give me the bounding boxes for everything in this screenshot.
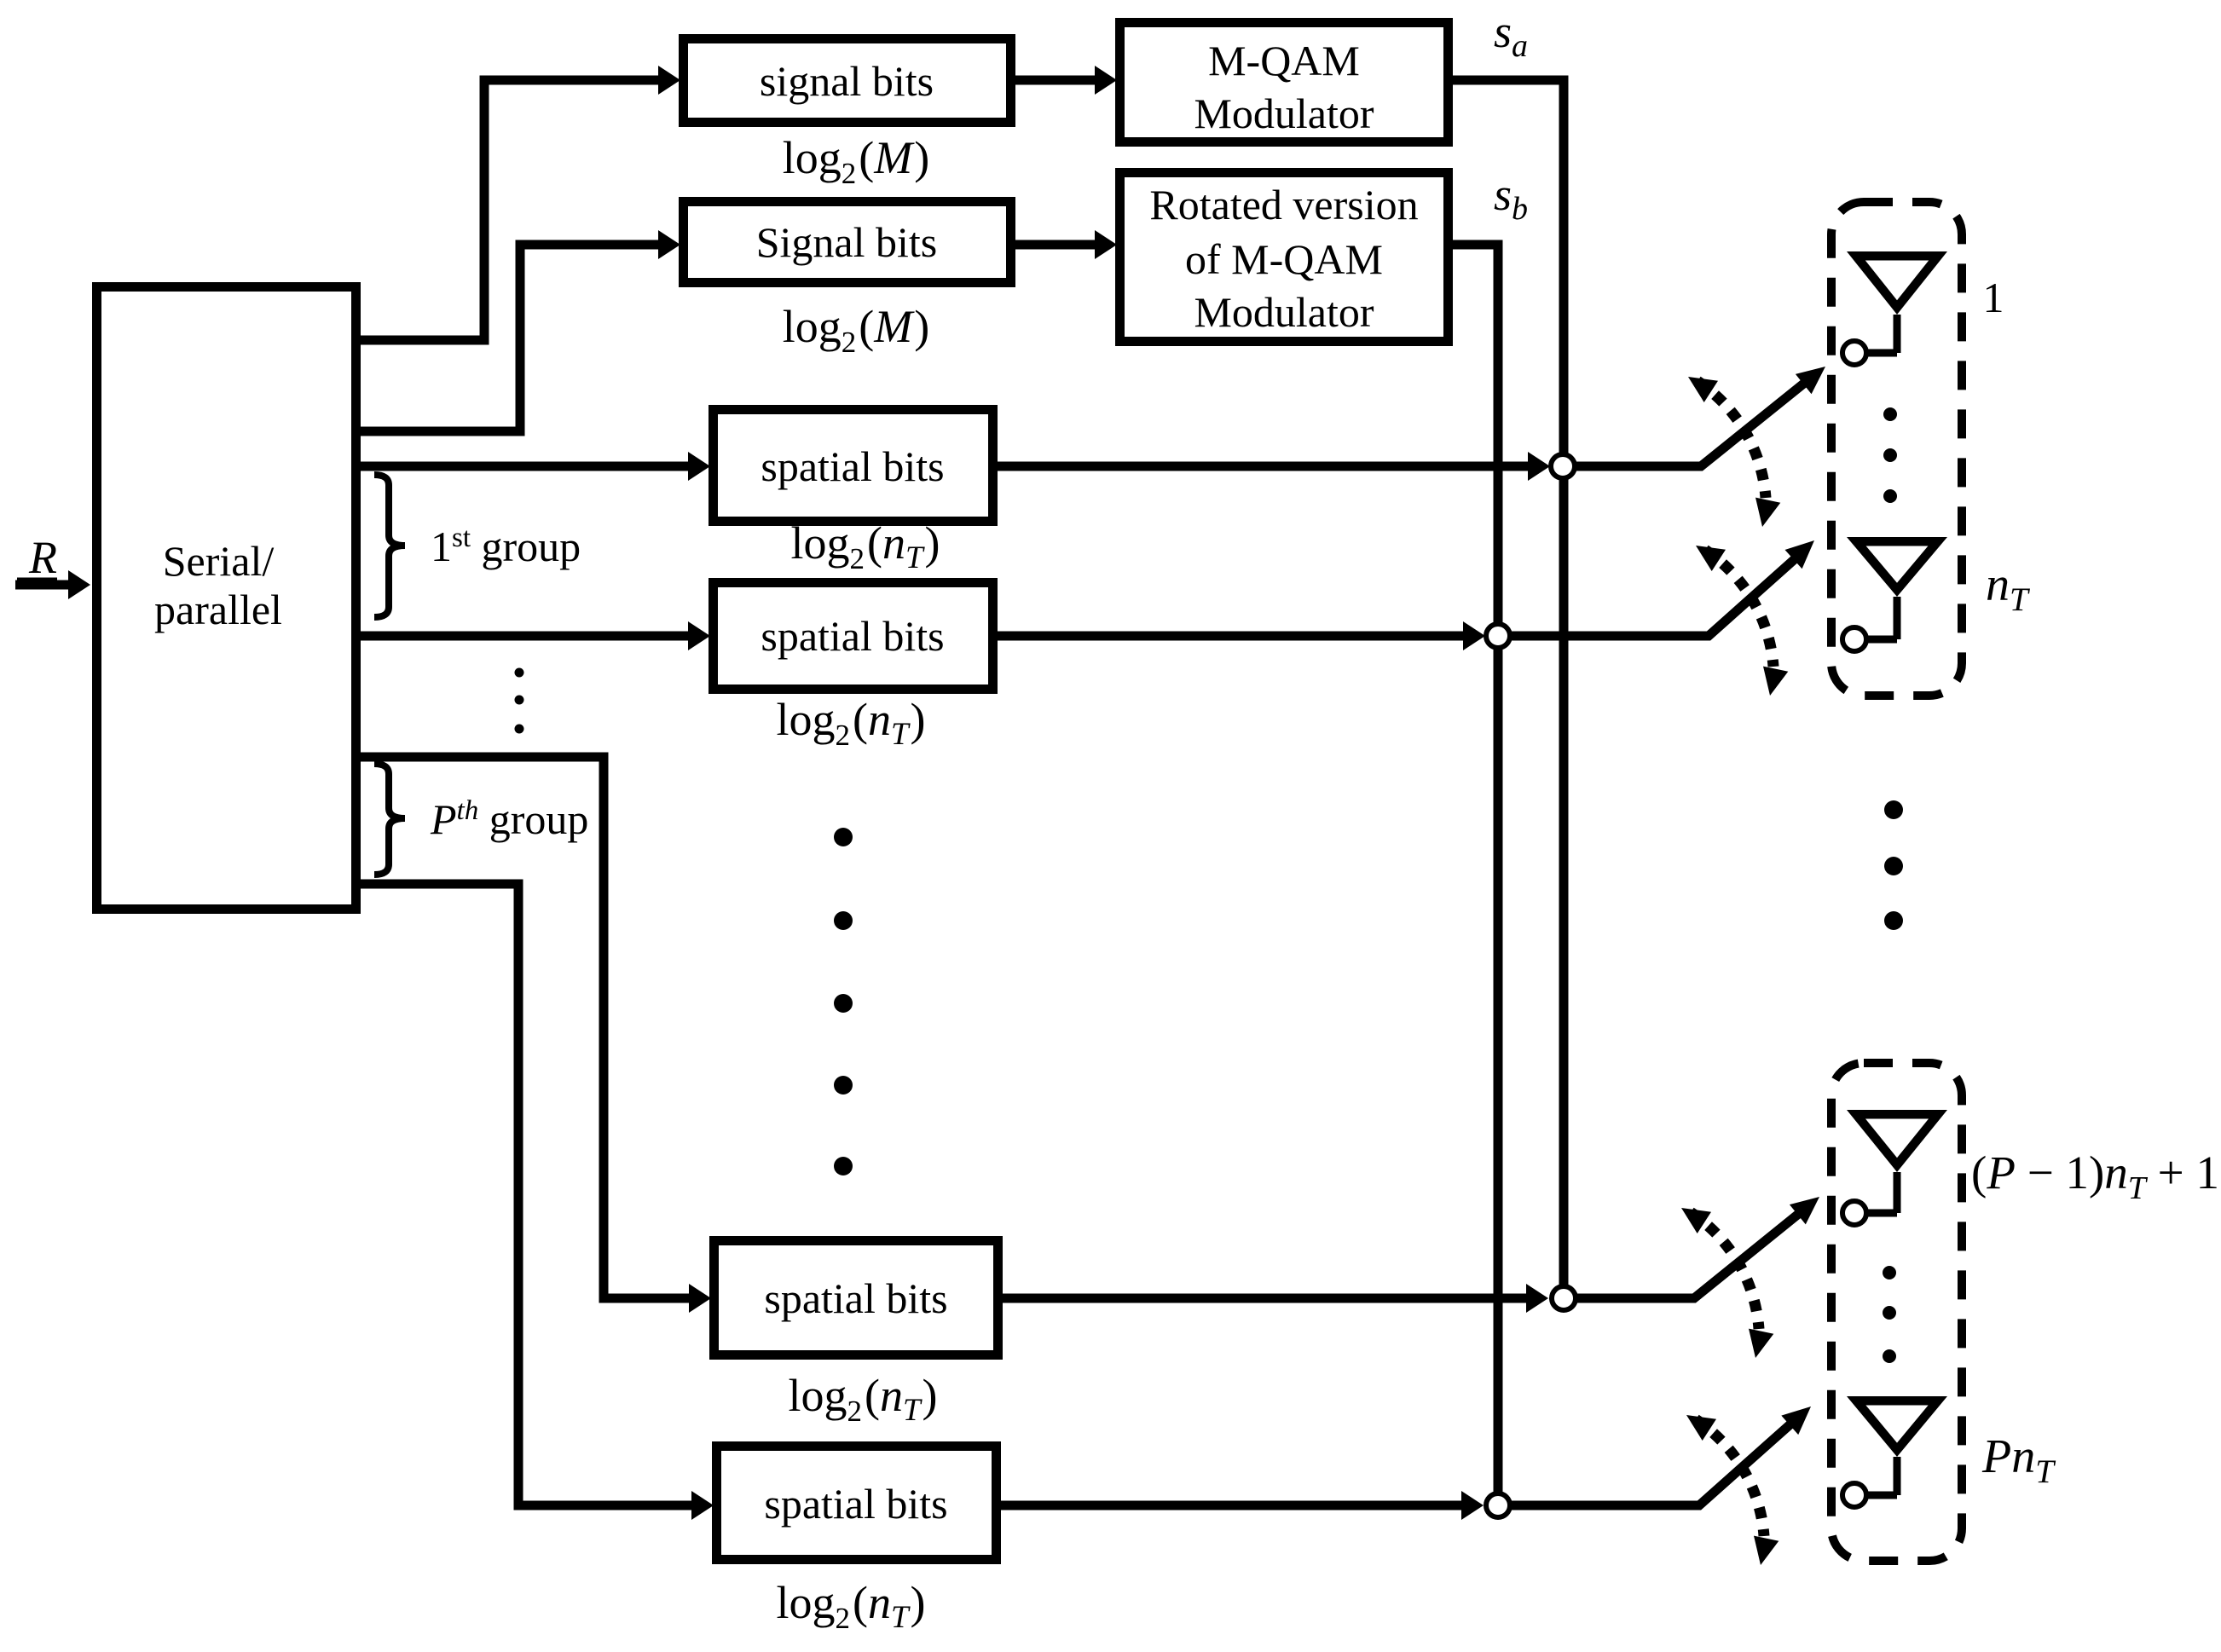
svg-text:(P − 1)nT + 1: (P − 1)nT + 1 [1971,1147,2219,1206]
svg-text:spatial bits: spatial bits [764,1480,947,1528]
svg-text:R: R [28,532,57,583]
svg-text:signal bits: signal bits [760,57,934,105]
svg-text:M-QAM: M-QAM [1208,37,1360,84]
svg-text:spatial bits: spatial bits [761,612,944,660]
svg-text:Modulator: Modulator [1194,288,1374,336]
svg-text:of M-QAM: of M-QAM [1185,235,1383,283]
svg-text:Modulator: Modulator [1194,90,1374,137]
svg-text:Signal bits: Signal bits [756,218,938,266]
svg-text:spatial bits: spatial bits [761,442,944,490]
svg-text:Serial/: Serial/ [163,537,275,585]
svg-text:Pth group: Pth group [430,795,588,843]
svg-text:1: 1 [1983,274,2004,321]
svg-text:parallel: parallel [154,586,282,633]
svg-text:Rotated version: Rotated version [1149,181,1418,228]
svg-text:spatial bits: spatial bits [764,1274,947,1322]
